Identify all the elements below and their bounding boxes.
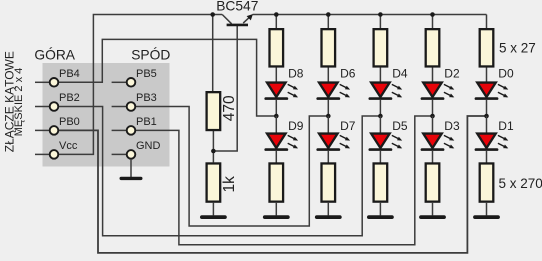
pin PB0 xyxy=(35,116,80,135)
ground at GND pin xyxy=(121,177,141,180)
wire node to LED D1 xyxy=(486,116,488,134)
wire resistor to ground col 1 xyxy=(275,203,277,216)
wire LED D2 to node xyxy=(432,100,434,116)
node top rail junction 3 xyxy=(378,12,383,17)
wire LED D6 to node xyxy=(327,100,329,116)
wire resistor to ground col 5 xyxy=(486,203,488,216)
wire LED D8 to node xyxy=(275,100,277,116)
wire 470 bottom to 1k top xyxy=(212,131,214,162)
svg-text:5 x 270: 5 x 270 xyxy=(499,176,542,191)
svg-text:D6: D6 xyxy=(340,67,356,81)
wire PB3 to node B (D7 column) xyxy=(131,107,328,227)
wire LED D4 to node xyxy=(379,100,381,116)
label ZŁĄCZE KĄTOWE (rotated) xyxy=(2,51,16,152)
svg-text:MĘSKIE 2 x 4: MĘSKIE 2 x 4 xyxy=(13,68,25,136)
label BC547 xyxy=(216,0,258,14)
ground col 1 xyxy=(265,215,288,219)
wire node to LED D3 xyxy=(432,116,434,134)
wire base to divider junction xyxy=(213,26,237,151)
pin PB1 xyxy=(112,116,157,135)
wire resistor to ground col 2 xyxy=(327,203,329,216)
wire PB2 to node C (D5 column) xyxy=(54,107,380,236)
svg-text:SPÓD: SPÓD xyxy=(131,47,170,63)
wire PB1 to node D (D3 column) xyxy=(131,116,433,245)
wire top rail to resistor 5 xyxy=(486,15,488,29)
label 5 x 27 xyxy=(499,41,536,56)
node mid junction col 1 xyxy=(274,114,279,119)
LED D7 xyxy=(318,134,350,150)
LED D3 xyxy=(422,134,454,150)
wire LED D7 to resistor xyxy=(327,150,329,163)
ground col 3 xyxy=(369,215,392,219)
LED D9 xyxy=(266,134,298,150)
pin Vcc xyxy=(35,140,78,159)
ground col 2 xyxy=(317,215,340,219)
svg-text:PB4: PB4 xyxy=(59,68,80,80)
svg-text:D0: D0 xyxy=(498,67,514,81)
node top rail junction 1 xyxy=(274,12,279,17)
wire top rail to resistor 1 xyxy=(275,15,277,29)
resistor 470 xyxy=(207,92,221,130)
wire collector junction to 470 xyxy=(212,15,214,92)
resistor 270R col 5 xyxy=(480,163,494,201)
svg-text:PB1: PB1 xyxy=(136,116,157,128)
svg-text:D4: D4 xyxy=(392,67,408,81)
LED D5 xyxy=(370,134,402,150)
wire LED D0 to node xyxy=(486,100,488,116)
wire resistor to LED D2 xyxy=(432,68,434,84)
label D8 xyxy=(288,67,304,81)
resistor 270R col 3 xyxy=(374,163,388,201)
svg-text:D2: D2 xyxy=(444,67,460,81)
wire LED D5 to resistor xyxy=(379,150,381,163)
wire top rail to resistor 4 xyxy=(432,15,434,29)
resistor 1k xyxy=(207,163,221,201)
pin PB3 xyxy=(112,92,157,111)
label 470 (rotated) xyxy=(221,95,238,121)
svg-text:BC547: BC547 xyxy=(216,0,258,14)
svg-text:D3: D3 xyxy=(444,119,460,133)
wire resistor to LED D6 xyxy=(327,68,329,84)
resistor 27R col 3 xyxy=(374,29,388,66)
pin GND xyxy=(112,140,161,159)
wire PB0 to node E (D1 column) xyxy=(54,116,487,253)
resistor 270R col 1 xyxy=(270,163,284,201)
svg-text:Vcc: Vcc xyxy=(59,140,78,152)
node mid junction col 4 xyxy=(430,114,435,119)
label D3 xyxy=(444,119,460,133)
LED D6 xyxy=(318,83,350,99)
wire LED D9 to resistor xyxy=(275,150,277,163)
node base/divider junction xyxy=(211,149,216,154)
node top rail junction 4 xyxy=(430,12,435,17)
resistor 27R col 4 xyxy=(426,29,440,66)
svg-text:D8: D8 xyxy=(288,67,304,81)
svg-text:D1: D1 xyxy=(498,119,514,133)
LED D1 xyxy=(476,134,508,150)
svg-text:GND: GND xyxy=(136,140,161,152)
resistor 27R col 2 xyxy=(322,29,336,66)
pin PB2 xyxy=(35,92,80,111)
wire resistor to LED D4 xyxy=(379,68,381,84)
transistor Q1 BC547 (NPN) xyxy=(213,14,253,25)
resistor 270R col 2 xyxy=(322,163,336,201)
label D9 xyxy=(288,119,304,133)
wire LED D1 to resistor xyxy=(486,150,488,163)
node mid junction col 5 xyxy=(484,114,489,119)
LED D8 xyxy=(266,83,298,99)
label D2 xyxy=(444,67,460,81)
pin PB4 xyxy=(35,68,80,87)
resistor 27R col 1 xyxy=(270,29,284,66)
svg-text:PB3: PB3 xyxy=(136,92,157,104)
wire resistor to ground col 4 xyxy=(432,203,434,216)
wire Vcc pin to top rail xyxy=(54,15,213,155)
svg-text:5 x 27: 5 x 27 xyxy=(499,41,536,56)
svg-text:470: 470 xyxy=(221,95,238,121)
wire node to LED D7 xyxy=(327,116,329,134)
svg-text:PB0: PB0 xyxy=(59,116,80,128)
node mid junction col 2 xyxy=(326,114,331,119)
svg-text:GÓRA: GÓRA xyxy=(34,47,75,63)
label D7 xyxy=(340,119,356,133)
resistor 270R col 4 xyxy=(426,163,440,201)
node mid junction col 3 xyxy=(378,114,383,119)
label D0 xyxy=(498,67,514,81)
wire PB4 to node A (D8/D9 junction) xyxy=(54,39,276,116)
wire 1k bottom to ground xyxy=(212,203,214,216)
svg-text:D7: D7 xyxy=(340,119,356,133)
wire resistor to LED D8 xyxy=(275,68,277,84)
label D1 xyxy=(498,119,514,133)
label GÓRA xyxy=(34,47,75,63)
node Vcc/collector junction xyxy=(210,12,215,17)
wire GND pin to ground xyxy=(130,159,132,177)
svg-text:PB2: PB2 xyxy=(59,92,80,104)
LED D2 xyxy=(422,83,454,99)
svg-text:D9: D9 xyxy=(288,119,304,133)
ground col 5 xyxy=(475,215,498,219)
resistor 27R col 5 xyxy=(480,29,494,66)
label D5 xyxy=(392,119,408,133)
svg-text:1k: 1k xyxy=(221,176,238,193)
label D4 xyxy=(392,67,408,81)
wire top rail to resistor 3 xyxy=(379,15,381,29)
wire resistor to ground col 3 xyxy=(379,203,381,216)
node top rail junction 2 xyxy=(326,12,331,17)
label SPÓD xyxy=(131,47,170,63)
wire LED D3 to resistor xyxy=(432,150,434,163)
wire node to LED D5 xyxy=(379,116,381,134)
label 1k (rotated) xyxy=(221,176,238,193)
label MĘSKIE 2 x 4 (rotated) xyxy=(13,68,25,136)
LED D4 xyxy=(370,83,402,99)
label 5 x 270 xyxy=(499,176,542,191)
svg-text:D5: D5 xyxy=(392,119,408,133)
wire resistor to LED D0 xyxy=(486,68,488,84)
connector body (2x4 header shaded panel) xyxy=(43,63,170,167)
LED D0 xyxy=(476,83,508,99)
svg-text:PB5: PB5 xyxy=(136,68,157,80)
pin PB5 xyxy=(112,68,157,87)
ground col 4 xyxy=(421,215,444,219)
wire top rail emitter to columns xyxy=(253,14,487,16)
wire node to LED D9 xyxy=(275,116,277,134)
label D6 xyxy=(340,67,356,81)
wire top rail to resistor 2 xyxy=(327,15,329,29)
ground under 1k xyxy=(202,215,225,219)
